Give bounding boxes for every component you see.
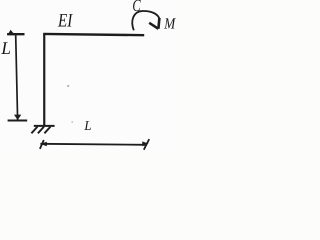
- bottom dimension left arrowhead: [40, 142, 47, 147]
- left dimension bottom arrowhead: [14, 115, 21, 120]
- moment arrowhead barb left: [149, 23, 158, 29]
- svg-text:EI: EI: [57, 10, 73, 31]
- bottom dimension line L: [40, 144, 146, 145]
- svg-text:M: M: [163, 16, 176, 33]
- moment arrowhead barb right: [158, 18, 159, 29]
- scan speckle: [71, 121, 73, 122]
- member EI: horizontal beam: [43, 34, 144, 35]
- left dimension bottom tick: [8, 120, 28, 122]
- bottom dimension right arrowhead: [142, 141, 148, 146]
- scan speckle: [67, 85, 69, 87]
- bottom dimension left slash tick: [40, 140, 44, 149]
- svg-text:L: L: [83, 118, 91, 133]
- support hatch 2: [38, 127, 44, 134]
- member: vertical column: [43, 33, 45, 126]
- bottom dimension right slash tick: [144, 139, 149, 150]
- support hatch 1: [31, 127, 37, 134]
- moment arc C: [132, 11, 159, 30]
- left dimension line L: [16, 35, 18, 119]
- left dimension top arrowhead: [8, 30, 16, 35]
- svg-text:L: L: [0, 38, 10, 58]
- support hatch 3: [44, 127, 50, 134]
- fixed support ground line: [34, 125, 55, 127]
- left dimension top tick: [7, 33, 24, 35]
- svg-text:C: C: [132, 0, 141, 15]
